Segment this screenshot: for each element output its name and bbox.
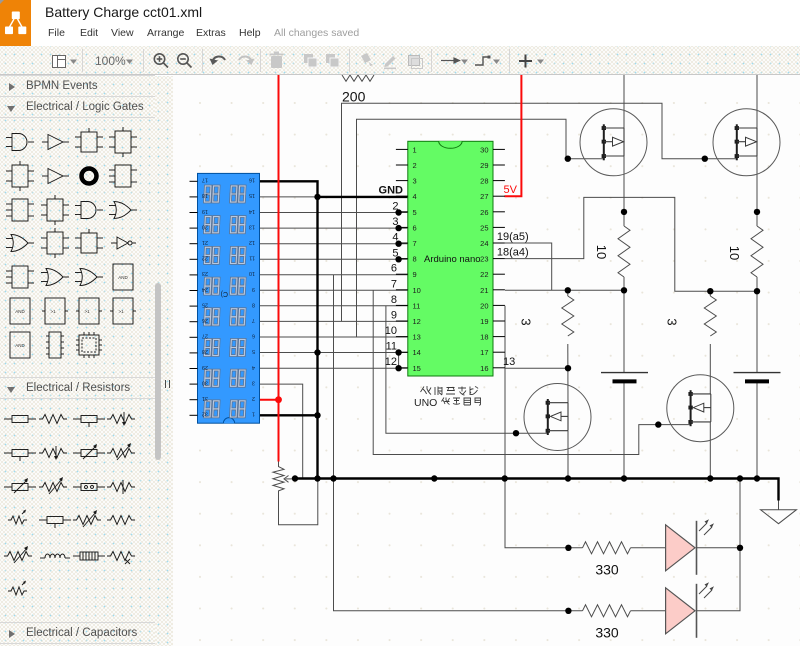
- svg-text:6: 6: [252, 333, 255, 339]
- svg-text:8: 8: [252, 301, 255, 307]
- svg-text:20: 20: [480, 301, 488, 310]
- svg-text:10: 10: [385, 325, 397, 337]
- svg-text:1: 1: [252, 411, 255, 417]
- svg-text:25: 25: [480, 223, 488, 232]
- svg-text:GND: GND: [379, 184, 404, 196]
- svg-text:14: 14: [249, 208, 255, 214]
- svg-text:16: 16: [480, 364, 488, 373]
- svg-text:3: 3: [252, 379, 255, 385]
- svg-text:24: 24: [480, 239, 488, 248]
- svg-text:19: 19: [202, 208, 208, 214]
- svg-text:19: 19: [480, 317, 488, 326]
- svg-text:17: 17: [202, 177, 208, 183]
- svg-text:4: 4: [252, 364, 255, 370]
- svg-text:9: 9: [391, 309, 397, 321]
- svg-text:10: 10: [413, 286, 421, 295]
- svg-text:23: 23: [480, 255, 488, 264]
- svg-text:7: 7: [252, 317, 255, 323]
- svg-text:24: 24: [202, 286, 208, 292]
- svg-text:3: 3: [665, 318, 680, 325]
- svg-text:3: 3: [392, 216, 398, 228]
- svg-text:2: 2: [392, 201, 398, 213]
- svg-text:16: 16: [249, 177, 255, 183]
- svg-text:13: 13: [249, 223, 255, 229]
- svg-text:32: 32: [202, 411, 208, 417]
- svg-text:8: 8: [391, 294, 397, 306]
- svg-text:22: 22: [480, 270, 488, 279]
- svg-text:11: 11: [386, 341, 397, 353]
- svg-text:27: 27: [480, 192, 488, 201]
- svg-text:100%: 100%: [95, 54, 126, 68]
- svg-text:14: 14: [413, 348, 421, 357]
- svg-text:21: 21: [202, 239, 208, 245]
- svg-text:6: 6: [391, 263, 397, 275]
- svg-text:12: 12: [413, 317, 421, 326]
- svg-text:29: 29: [480, 161, 488, 170]
- svg-text:18: 18: [202, 192, 208, 198]
- svg-text:2: 2: [252, 395, 255, 401]
- svg-text:5: 5: [413, 208, 417, 217]
- svg-text:Arduino nano: Arduino nano: [424, 254, 481, 265]
- svg-text:200: 200: [342, 89, 366, 105]
- svg-text:2: 2: [413, 161, 417, 170]
- svg-text:19(a5): 19(a5): [497, 231, 529, 243]
- svg-text:7: 7: [391, 278, 397, 290]
- svg-text:18: 18: [480, 333, 488, 342]
- svg-text:4: 4: [413, 192, 417, 201]
- svg-text:10: 10: [727, 246, 742, 260]
- svg-text:30: 30: [480, 145, 488, 154]
- svg-text:25: 25: [202, 301, 208, 307]
- svg-text:17: 17: [480, 348, 488, 357]
- svg-text:10: 10: [594, 245, 609, 259]
- svg-text:8: 8: [413, 255, 417, 264]
- svg-text:13: 13: [413, 333, 421, 342]
- svg-text:15: 15: [249, 192, 255, 198]
- svg-text:28: 28: [202, 348, 208, 354]
- svg-text:21: 21: [480, 286, 488, 295]
- svg-text:7: 7: [413, 239, 417, 248]
- svg-text:9: 9: [252, 286, 255, 292]
- svg-text:29: 29: [202, 364, 208, 370]
- svg-text:12: 12: [249, 239, 255, 245]
- svg-text:5V: 5V: [504, 184, 518, 196]
- svg-text:330: 330: [595, 625, 619, 641]
- svg-text:UNO: UNO: [414, 397, 437, 409]
- svg-text:11: 11: [249, 255, 255, 261]
- svg-text:10: 10: [249, 270, 255, 276]
- svg-text:9: 9: [413, 270, 417, 279]
- svg-text:3: 3: [413, 177, 417, 186]
- svg-text:1: 1: [413, 145, 417, 154]
- svg-text:C): C): [221, 290, 228, 297]
- svg-text:5: 5: [252, 348, 255, 354]
- svg-text:4: 4: [392, 232, 398, 244]
- svg-text:15: 15: [413, 364, 421, 373]
- svg-text:22: 22: [202, 255, 208, 261]
- svg-text:12: 12: [385, 356, 397, 368]
- svg-text:13: 13: [503, 356, 515, 368]
- svg-text:28: 28: [480, 177, 488, 186]
- svg-text:26: 26: [480, 208, 488, 217]
- svg-text:3: 3: [519, 318, 534, 325]
- svg-text:330: 330: [595, 562, 619, 578]
- svg-text:20: 20: [202, 223, 208, 229]
- svg-text:26: 26: [202, 317, 208, 323]
- svg-text:6: 6: [413, 223, 417, 232]
- svg-text:23: 23: [202, 270, 208, 276]
- svg-text:18(a4): 18(a4): [497, 247, 529, 259]
- svg-text:31: 31: [202, 395, 208, 401]
- svg-text:30: 30: [202, 379, 208, 385]
- svg-text:27: 27: [202, 333, 208, 339]
- svg-text:5: 5: [392, 247, 398, 259]
- svg-text:11: 11: [413, 301, 421, 310]
